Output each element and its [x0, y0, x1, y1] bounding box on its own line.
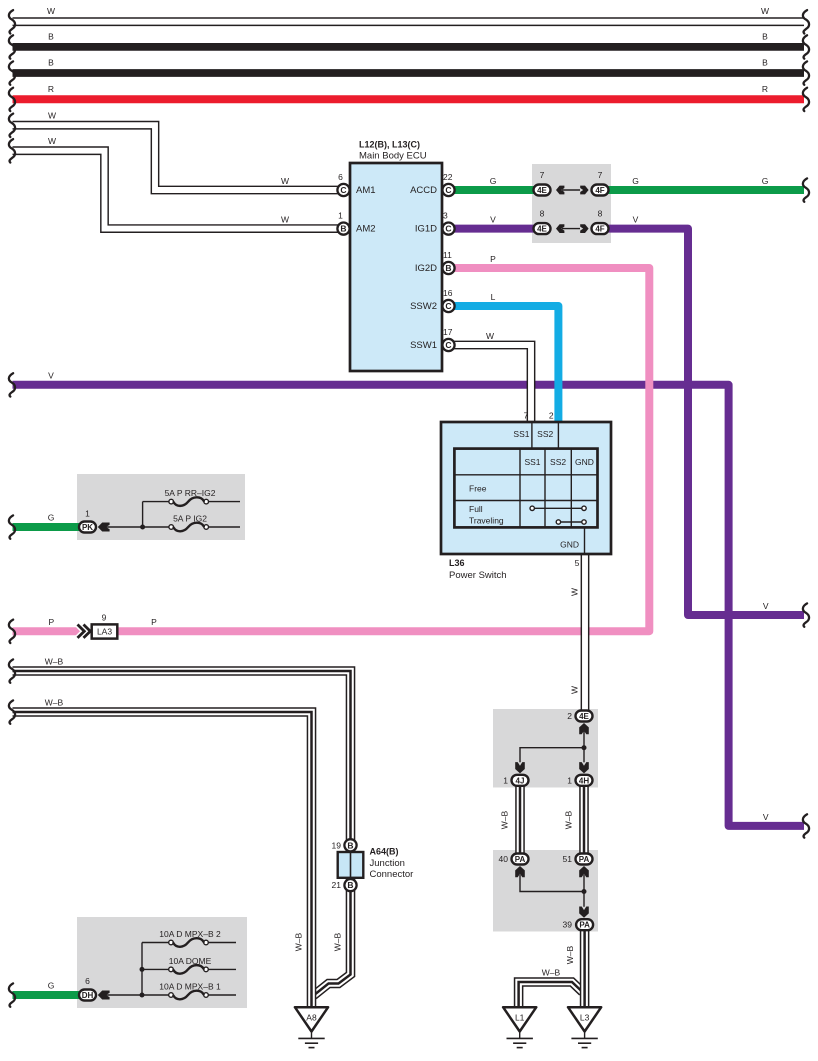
wire W to AM2 [13, 136, 341, 228]
pin 11 IG2D [415, 250, 455, 274]
svg-text:L12(B), L13(C): L12(B), L13(C) [359, 140, 420, 150]
connector 4F pin 7 [592, 170, 609, 196]
joint arrow at PK [98, 523, 169, 532]
svg-text:Junction: Junction [370, 858, 405, 869]
brace left V [9, 373, 15, 396]
svg-text:P: P [48, 617, 54, 627]
svg-text:4E: 4E [537, 186, 547, 195]
svg-text:7: 7 [598, 170, 603, 180]
brace left B1 [9, 35, 15, 58]
svg-text:V: V [48, 370, 54, 380]
connector PA pin 51 [563, 854, 593, 865]
brace left W AM1 [9, 114, 15, 137]
svg-text:4H: 4H [579, 776, 589, 785]
svg-text:SSW2: SSW2 [410, 301, 437, 312]
connector 4H pin 1 [567, 775, 592, 786]
connector DH pin 6 [79, 976, 96, 1001]
wire W from power switch GND to 4E [570, 553, 586, 710]
wire B horizontal 2 [13, 58, 805, 74]
svg-text:W–B: W–B [564, 810, 574, 829]
wire W to AM1 [13, 111, 341, 190]
connector block 4E-4J-4H [493, 709, 598, 788]
svg-text:W–B: W–B [294, 932, 304, 951]
fuse 10A D MPX-B 1 [159, 982, 236, 1000]
svg-text:IG1D: IG1D [415, 224, 437, 235]
brace right R [803, 88, 809, 111]
brace left W [9, 10, 15, 33]
ECU title [359, 140, 427, 162]
svg-text:G: G [490, 176, 497, 186]
svg-text:4F: 4F [595, 225, 604, 234]
Main Body ECU block L12(B) L13(C) [350, 163, 442, 371]
junction connector A64(B) pin 21 [332, 879, 357, 891]
svg-text:21: 21 [332, 880, 342, 890]
svg-text:19: 19 [332, 840, 342, 850]
wire W-B from PA39 to ground L3 [565, 930, 585, 1007]
joint arrows 4E-4F row 2 [556, 224, 589, 233]
brace left W AM2 [9, 139, 15, 162]
svg-text:GND: GND [575, 457, 594, 467]
svg-text:PA: PA [579, 855, 590, 864]
fuse 5A P IG2 [169, 514, 240, 532]
connector LA3 pin 9 [78, 612, 118, 638]
svg-text:B: B [347, 880, 353, 890]
svg-text:IG2D: IG2D [415, 263, 437, 274]
pin 17 SSW1 [410, 327, 455, 351]
joint arrow below PA51 [579, 866, 589, 892]
svg-text:PA: PA [515, 855, 526, 864]
brace left W-B 1 [9, 659, 15, 682]
wire G after 4F to right [608, 176, 804, 190]
switch state table [454, 449, 597, 528]
svg-text:1: 1 [503, 775, 508, 785]
svg-text:Connector: Connector [370, 869, 414, 880]
node junction above PA39 [582, 889, 587, 907]
svg-text:B: B [340, 224, 346, 234]
brace left G DH [9, 983, 15, 1006]
svg-text:V: V [763, 601, 769, 611]
svg-text:7: 7 [540, 170, 545, 180]
svg-text:W: W [47, 6, 55, 16]
brace left W-B 2 [9, 700, 15, 723]
wire W top horizontal [13, 6, 805, 22]
brace right B2 [803, 61, 809, 84]
connector 4E pin 8 [534, 209, 551, 235]
svg-text:2: 2 [549, 411, 554, 421]
fuse 5A P RR-IG2 [165, 488, 240, 506]
svg-text:8: 8 [540, 209, 545, 219]
svg-text:C: C [445, 301, 451, 311]
connector block 4E-4F [532, 164, 611, 243]
wire G to PK [13, 513, 81, 528]
svg-text:L: L [491, 292, 496, 302]
svg-text:SS1: SS1 [513, 429, 529, 439]
svg-text:SS2: SS2 [550, 457, 566, 467]
svg-text:C: C [340, 185, 346, 195]
connector 4F pin 8 [592, 209, 609, 235]
svg-text:17: 17 [443, 327, 453, 337]
wire G from ACCD [452, 176, 534, 190]
svg-text:V: V [763, 812, 769, 822]
svg-text:6: 6 [338, 172, 343, 182]
svg-text:5: 5 [575, 558, 580, 568]
pin 16 SSW2 [410, 288, 455, 312]
svg-text:W: W [486, 331, 494, 341]
wire W-B lower horizontal to ground A8 [13, 698, 312, 1008]
svg-text:1: 1 [85, 509, 90, 519]
node junction 10A [140, 943, 169, 998]
svg-text:Main Body ECU: Main Body ECU [359, 151, 427, 162]
switch name L36 [449, 558, 507, 581]
svg-text:1: 1 [567, 775, 572, 785]
wire W-B from 4J to PA40 [500, 786, 521, 853]
wire V long horizontal to right side [13, 370, 805, 826]
wire W-B branch to ground L1 [519, 968, 583, 1008]
fuse 10A D MPX-B 2 [159, 929, 236, 947]
svg-text:9: 9 [102, 612, 107, 622]
svg-text:B: B [48, 31, 54, 41]
joint arrow above 4J [515, 762, 525, 773]
svg-text:10A D MPX–B 2: 10A D MPX–B 2 [159, 929, 221, 939]
svg-text:4E: 4E [579, 712, 589, 721]
svg-text:51: 51 [563, 854, 573, 864]
svg-text:PK: PK [82, 523, 93, 532]
svg-text:G: G [48, 513, 55, 523]
contact SS1-GND [530, 506, 586, 510]
svg-text:W: W [48, 136, 56, 146]
svg-text:B: B [48, 58, 54, 68]
junction connector A64(B) pin 19 [332, 839, 357, 851]
svg-text:10A DOME: 10A DOME [169, 956, 212, 966]
svg-text:SS1: SS1 [524, 457, 540, 467]
svg-text:A8: A8 [306, 1013, 317, 1023]
wire W-B upper horizontal to A64 [13, 657, 351, 996]
brace left G PK [9, 515, 15, 538]
joint arrow at DH [98, 991, 169, 1000]
ground A8 [295, 1007, 328, 1047]
connector 4E pin 2 [567, 711, 592, 722]
svg-text:R: R [762, 84, 768, 94]
svg-text:W: W [48, 111, 56, 121]
wire V from IG1D [452, 215, 534, 229]
svg-text:40: 40 [499, 854, 509, 864]
svg-text:W–B: W–B [45, 698, 64, 708]
brace right V upper [803, 603, 809, 626]
joint arrows 4E-4F row 1 [556, 186, 589, 195]
SS2 lead line [537, 423, 558, 449]
relay block box (10A fuses) [77, 917, 247, 1008]
wire R horizontal [13, 84, 805, 100]
svg-text:5A P RR–IG2: 5A P RR–IG2 [165, 488, 216, 498]
connector PA pin 40 [499, 854, 529, 865]
svg-text:4F: 4F [595, 186, 604, 195]
svg-text:39: 39 [563, 920, 573, 930]
svg-text:W: W [570, 588, 580, 596]
svg-text:11: 11 [443, 250, 452, 260]
svg-text:W–B: W–B [500, 810, 510, 829]
svg-text:P: P [490, 254, 496, 264]
relay block box (5A fuses) [77, 474, 245, 540]
connector 4J pin 1 [503, 775, 528, 786]
node junction below 4E [520, 745, 587, 762]
joint arrow above PA39 [579, 907, 589, 918]
svg-text:8: 8 [598, 209, 603, 219]
svg-text:22: 22 [443, 172, 453, 182]
svg-text:5A P IG2: 5A P IG2 [173, 514, 207, 524]
svg-text:W: W [281, 176, 289, 186]
svg-text:G: G [632, 176, 639, 186]
ground L1 [503, 1007, 536, 1047]
svg-text:Full: Full [469, 504, 483, 514]
svg-text:V: V [633, 215, 639, 225]
pin 1 AM2 [337, 211, 375, 235]
svg-text:SS2: SS2 [537, 429, 553, 439]
svg-text:ACCD: ACCD [410, 185, 437, 196]
svg-text:7: 7 [524, 411, 529, 421]
pin 6 AM1 [337, 172, 375, 196]
svg-text:G: G [48, 981, 55, 991]
svg-text:W: W [570, 686, 580, 694]
wire W from SSW1 to power switch [452, 331, 531, 424]
svg-text:C: C [445, 224, 451, 234]
brace right W [803, 10, 809, 33]
joint arrow below PA40 [515, 866, 584, 892]
pin 3 IG1D [415, 211, 455, 235]
svg-text:R: R [48, 84, 54, 94]
brace right V lower [803, 814, 809, 837]
svg-text:L36: L36 [449, 558, 465, 568]
brace left P [9, 620, 15, 643]
contact SS2-GND [556, 520, 586, 524]
connector PK pin 1 [79, 509, 96, 533]
connector PA pin 39 [563, 919, 594, 930]
brace right G [803, 178, 809, 201]
svg-text:C: C [445, 340, 451, 350]
svg-text:W–B: W–B [542, 968, 561, 978]
svg-text:4J: 4J [516, 776, 525, 785]
joint arrow above 4H [579, 762, 589, 773]
svg-text:V: V [490, 215, 496, 225]
svg-text:P: P [151, 617, 157, 627]
svg-text:L3: L3 [580, 1013, 590, 1023]
GND lead line [560, 527, 584, 553]
brace left B2 [9, 61, 15, 84]
svg-text:W–B: W–B [45, 657, 64, 667]
svg-text:AM2: AM2 [356, 224, 376, 235]
svg-text:Free: Free [469, 484, 487, 494]
wire L from SSW2 [452, 292, 558, 424]
svg-text:B: B [762, 31, 768, 41]
svg-text:L1: L1 [515, 1013, 525, 1023]
svg-text:4E: 4E [537, 225, 547, 234]
wire P from IG2D through LA3 [13, 254, 650, 631]
svg-text:B: B [347, 840, 353, 850]
svg-text:AM1: AM1 [356, 185, 376, 196]
wire W-B from 4H to PA51 [564, 786, 585, 853]
svg-text:C: C [445, 185, 451, 195]
wire G to DH [13, 981, 81, 996]
wire V after 4F down to right side [608, 215, 804, 615]
svg-text:B: B [445, 263, 451, 273]
svg-text:10A D MPX–B 1: 10A D MPX–B 1 [159, 982, 221, 992]
svg-text:3: 3 [443, 211, 448, 221]
connector 4E pin 7 [534, 170, 551, 196]
svg-text:W–B: W–B [565, 945, 575, 964]
node junction 5A [140, 502, 169, 530]
svg-text:GND: GND [560, 540, 579, 550]
svg-text:1: 1 [338, 211, 343, 221]
pin 22 ACCD [410, 172, 455, 196]
fuse 10A DOME [169, 956, 236, 974]
svg-text:Traveling: Traveling [469, 516, 504, 526]
connector block PA [493, 850, 598, 932]
svg-text:16: 16 [443, 288, 453, 298]
svg-text:A64(B): A64(B) [370, 847, 399, 857]
svg-text:W: W [761, 6, 769, 16]
wire B horizontal 1 [13, 31, 805, 47]
svg-text:LA3: LA3 [97, 627, 112, 637]
svg-text:DH: DH [82, 991, 94, 1000]
junction connector A64(B) body [338, 847, 414, 880]
power switch L36 box [441, 422, 611, 554]
svg-text:6: 6 [85, 976, 90, 986]
svg-text:W–B: W–B [333, 932, 343, 951]
svg-text:SSW1: SSW1 [410, 340, 437, 351]
SS1 lead line [513, 423, 531, 449]
svg-text:B: B [762, 58, 768, 68]
svg-text:2: 2 [567, 711, 572, 721]
svg-text:G: G [762, 176, 769, 186]
brace left R [9, 88, 15, 111]
ground L3 [568, 1007, 601, 1047]
svg-text:PA: PA [579, 921, 590, 930]
brace right B1 [803, 35, 809, 58]
joint arrow below 4E [579, 723, 589, 748]
svg-text:W: W [281, 215, 289, 225]
svg-text:Power Switch: Power Switch [449, 570, 507, 581]
